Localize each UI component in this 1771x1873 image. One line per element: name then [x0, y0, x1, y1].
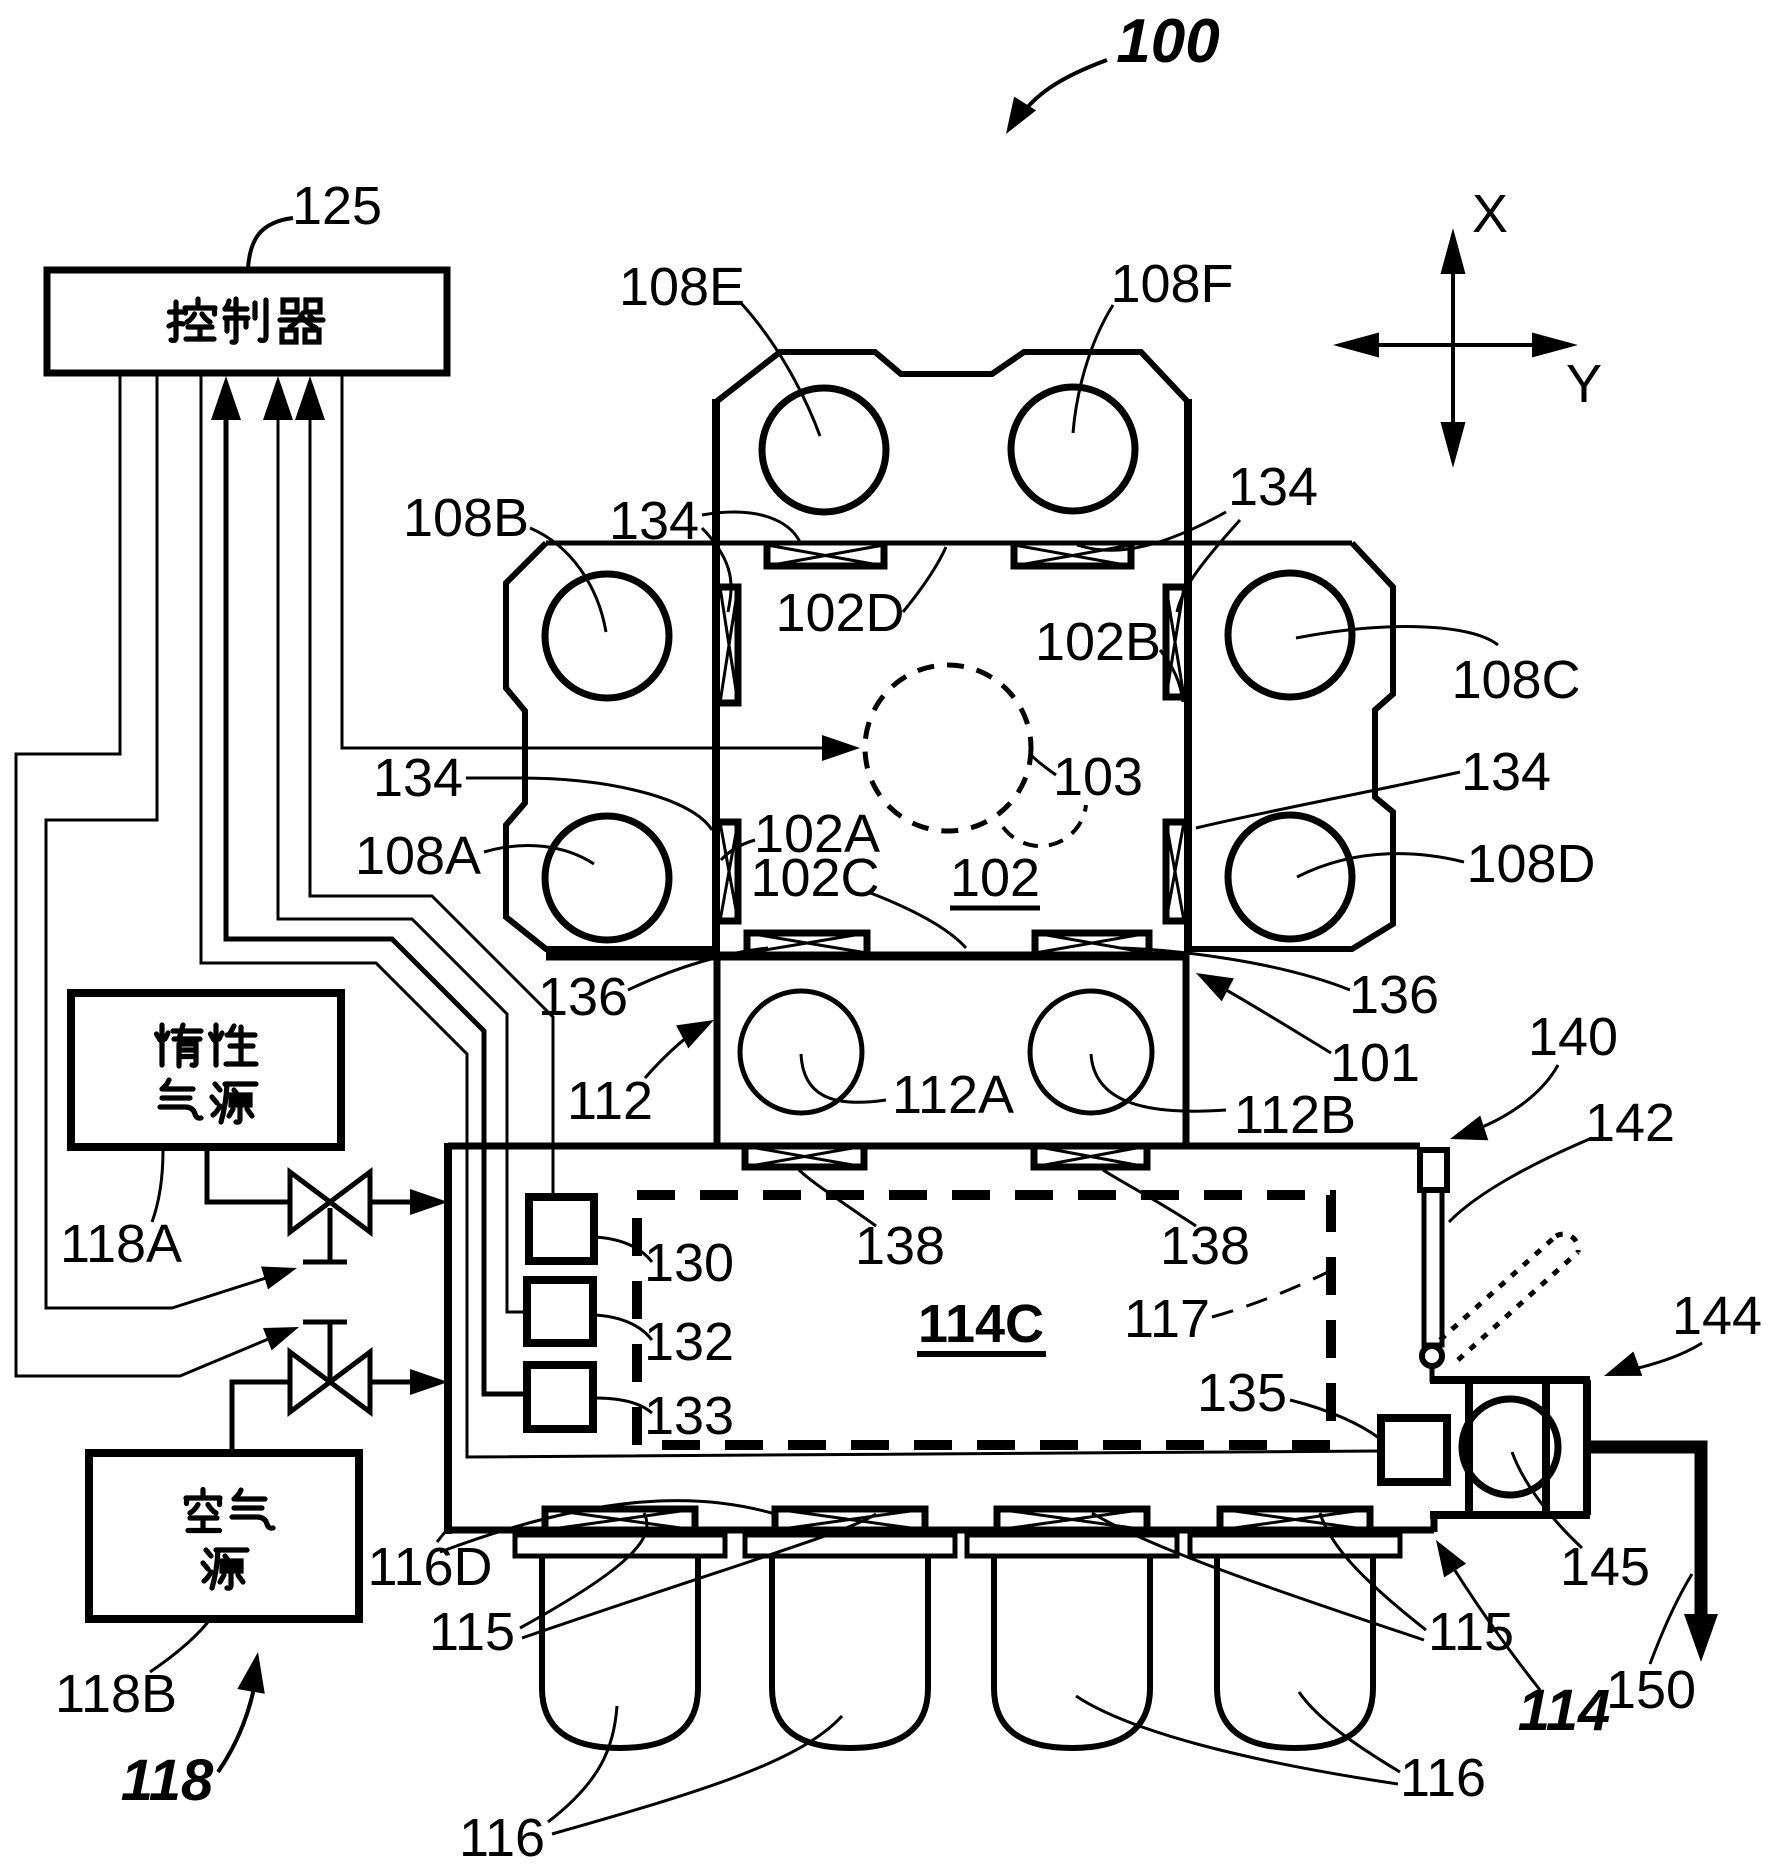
load port slit valve 115-2: [775, 1509, 925, 1530]
dashed enclosure 114C: [637, 1195, 1331, 1445]
leader 135: [1290, 1400, 1379, 1438]
loadlock left wall: [714, 955, 721, 1146]
leader 101: [1212, 982, 1331, 1053]
svg-text:136: 136: [538, 967, 628, 1027]
svg-text:134: 134: [609, 491, 699, 551]
svg-text:Y: Y: [1566, 354, 1602, 414]
inert gas source text: [157, 1025, 202, 1066]
wire L3 controller-to-FI-135: [201, 374, 1378, 1457]
gas panel box 130: [529, 1197, 594, 1261]
leader 140: [1466, 1065, 1558, 1133]
leader 145: [1512, 1452, 1582, 1548]
svg-text:132: 132: [644, 1312, 734, 1372]
robot 103 dashed circle: [865, 665, 1031, 831]
sweep 116D to port2: [440, 1501, 775, 1552]
leader 133: [595, 1398, 652, 1413]
axis horizontal Y: [1343, 343, 1568, 347]
controller box 125: [47, 270, 447, 373]
leader 136 left: [628, 948, 768, 990]
svg-text:118: 118: [121, 1748, 214, 1813]
svg-text:116: 116: [1400, 1748, 1486, 1808]
slit valve 136 bottom-left: [747, 933, 867, 953]
svg-text:130: 130: [644, 1233, 734, 1293]
slit valve 134 left-wall lower: [720, 822, 738, 921]
leader 118 arrow: [218, 1672, 257, 1772]
pipe air-source to valve2: [232, 1382, 290, 1453]
wire L4 controller-to-FI-133 (thick, arrow into controller): [226, 418, 525, 1394]
svg-text:112: 112: [567, 1071, 653, 1131]
axis vertical X: [1451, 238, 1455, 458]
svg-text:133: 133: [644, 1386, 734, 1446]
load port slit valve 115-3: [997, 1509, 1147, 1530]
svg-text:108D: 108D: [1466, 834, 1595, 894]
leader 138 right: [1103, 1170, 1196, 1226]
chamber circle 108F: [1011, 387, 1135, 511]
FI bottom wall: [444, 1527, 1434, 1534]
leader 116L a: [548, 1706, 617, 1822]
leader 108F: [1073, 305, 1113, 433]
valve 2 (air): [328, 1322, 333, 1382]
leader 136 right: [1122, 948, 1350, 990]
svg-text:X: X: [1472, 184, 1508, 244]
leader 112 arrow: [645, 1027, 700, 1078]
chamber circle 108A: [545, 816, 669, 940]
pump circle 145: [1462, 1399, 1558, 1495]
leader 102C: [868, 892, 966, 948]
slit valve 134 left-wall upper: [720, 587, 738, 703]
leader 102A: [721, 840, 755, 860]
leader 115L a: [520, 1513, 647, 1628]
load port slit valve 115-1: [545, 1509, 695, 1530]
loadlock right wall: [1183, 955, 1190, 1146]
leader 102B: [1160, 650, 1183, 702]
svg-text:144: 144: [1672, 1286, 1762, 1346]
wire L2 controller-to-valve1 actuator: [46, 374, 288, 1308]
svg-text:108C: 108C: [1451, 650, 1580, 710]
svg-text:142: 142: [1585, 1093, 1675, 1153]
mainframe top boundary line: [546, 541, 1352, 546]
svg-text:140: 140: [1528, 1007, 1618, 1067]
svg-text:101: 101: [1330, 1033, 1420, 1093]
slit valve 134 top-right: [1014, 545, 1131, 566]
controller text kong-zhi-qi: [169, 299, 215, 341]
chamber circle 108E: [762, 388, 886, 512]
slit valve 136 bottom-right: [1035, 933, 1149, 953]
wire L5 controller-to-FI-132: [278, 418, 525, 1312]
leader 116R a: [1299, 1692, 1400, 1772]
chamber circle 108B: [545, 574, 669, 698]
leader 134 mid-left: [466, 778, 712, 830]
leader 115R b: [1092, 1513, 1424, 1640]
leader 102D: [903, 547, 946, 612]
load port plate 115-1: [515, 1535, 725, 1556]
svg-text:100: 100: [1116, 7, 1219, 76]
svg-text:102C: 102C: [750, 848, 879, 908]
leader 134 top-left a: [702, 512, 800, 542]
leader 130: [596, 1237, 652, 1262]
svg-text:118B: 118B: [55, 1664, 177, 1724]
svg-text:134: 134: [1228, 457, 1318, 517]
leader 114: [1446, 1556, 1540, 1690]
leader 116L b: [552, 1716, 842, 1834]
leader 134 top-left b: [702, 528, 731, 612]
leader 134 top-right a: [1077, 512, 1226, 550]
robot blade dashed arc: [1003, 805, 1086, 846]
svg-text:136: 136: [1349, 965, 1439, 1025]
svg-text:103: 103: [1053, 747, 1143, 807]
transfer chamber left wall: [712, 399, 720, 955]
top chamber module outline: [716, 352, 1188, 402]
svg-text:125: 125: [292, 176, 382, 236]
load port plate 115-2: [745, 1535, 955, 1556]
loadlock wafer circle 112B: [1030, 991, 1152, 1113]
box 135: [1381, 1418, 1447, 1482]
leader 138 left: [799, 1170, 876, 1226]
svg-text:134: 134: [373, 748, 463, 808]
leader 116D: [437, 1530, 447, 1542]
transfer chamber right wall: [1184, 399, 1192, 955]
slit valve 134 top-left: [767, 545, 884, 566]
load port plate 115-4: [1190, 1535, 1400, 1556]
leader 108D: [1297, 854, 1464, 877]
svg-text:116D: 116D: [367, 1537, 492, 1597]
svg-text:134: 134: [1461, 742, 1551, 802]
FI top wall: [448, 1143, 1420, 1150]
carrier pod 116-3: [994, 1556, 1150, 1748]
leader 108B: [530, 528, 606, 632]
leader 125: [248, 218, 293, 268]
left chamber module outline: [506, 543, 716, 949]
exhaust line 150: [1590, 1447, 1701, 1618]
leader 134 top-right b: [1177, 520, 1240, 612]
slit valve 138 left: [745, 1146, 864, 1167]
aligner pivot stub: [1430, 1366, 1435, 1382]
slit valve 134 right-wall upper: [1166, 587, 1184, 697]
svg-text:135: 135: [1197, 1363, 1287, 1423]
leader 117 dashed: [1212, 1272, 1328, 1317]
gas panel box 133: [527, 1365, 593, 1429]
leader 116R b: [1076, 1696, 1398, 1784]
leader 112A: [801, 1054, 886, 1102]
aligner pivot: [1422, 1346, 1442, 1366]
leader 132: [596, 1315, 652, 1340]
carrier pod 116-2: [772, 1556, 928, 1748]
gas panel box 132: [527, 1280, 593, 1343]
leader 150: [1650, 1574, 1692, 1664]
leader 108A: [484, 846, 594, 864]
svg-text:115: 115: [429, 1602, 515, 1662]
svg-text:102: 102: [950, 848, 1040, 908]
pump box 144: [1430, 1380, 1590, 1515]
loadlock wafer circle 112A: [740, 991, 862, 1113]
aligner rod 142: [1424, 1190, 1442, 1345]
leader 142: [1449, 1138, 1592, 1222]
leader 144: [1620, 1343, 1702, 1372]
chamber circle 108C: [1228, 573, 1352, 697]
svg-text:114C: 114C: [918, 1294, 1044, 1354]
pipe valve2 to FI: [368, 1380, 424, 1385]
svg-text:108F: 108F: [1110, 254, 1233, 314]
svg-text:102D: 102D: [775, 583, 904, 643]
dotted arm: [1440, 1236, 1556, 1340]
svg-text:116: 116: [459, 1808, 545, 1868]
air source box 118B: [89, 1453, 359, 1619]
air source text: [186, 1490, 220, 1531]
svg-text:102B: 102B: [1035, 612, 1161, 672]
pipe inert-source to valve1: [207, 1147, 290, 1202]
chamber circle 108D: [1228, 815, 1352, 939]
leader arrow for 100: [1017, 60, 1107, 121]
svg-text:138: 138: [855, 1216, 945, 1276]
load port slit valve 115-4: [1220, 1509, 1370, 1530]
slit valve 138 right: [1034, 1146, 1147, 1167]
leader 134 mid-right: [1196, 772, 1460, 828]
svg-text:108E: 108E: [619, 257, 745, 317]
load port plate 115-3: [967, 1535, 1177, 1556]
leader 108C: [1296, 627, 1498, 645]
svg-text:118A: 118A: [60, 1214, 182, 1274]
svg-text:112A: 112A: [892, 1065, 1014, 1125]
valve 1 (inert gas): [328, 1208, 333, 1262]
leader 118A: [152, 1150, 163, 1222]
slit valve 134 right-wall lower: [1166, 822, 1184, 921]
carrier pod 116-4: [1217, 1556, 1373, 1748]
svg-text:117: 117: [1124, 1289, 1210, 1349]
FI left wall: [444, 1143, 452, 1534]
wire L6 controller-to-FI-130: [310, 418, 553, 1195]
leader 118B: [150, 1622, 208, 1672]
svg-text:108B: 108B: [403, 488, 529, 548]
wire L1 controller-to-valve2 actuator: [16, 374, 290, 1376]
wire L7 controller-to-robot-arrow: [342, 374, 844, 748]
aligner head 140: [1420, 1150, 1447, 1190]
inert gas source box 118A: [71, 993, 341, 1147]
carrier pod 116-1: [542, 1556, 698, 1748]
leader 103: [1031, 755, 1056, 775]
svg-text:115: 115: [1428, 1602, 1514, 1662]
svg-text:112B: 112B: [1234, 1085, 1356, 1145]
leader 112B: [1091, 1054, 1226, 1111]
leader 115L b: [522, 1514, 876, 1638]
mainframe bottom boundary 101: [546, 952, 1188, 961]
svg-text:108A: 108A: [355, 826, 481, 886]
svg-text:138: 138: [1160, 1216, 1250, 1276]
svg-text:145: 145: [1560, 1537, 1650, 1597]
svg-text:150: 150: [1606, 1660, 1696, 1720]
svg-text:114: 114: [1518, 1678, 1610, 1743]
leader 115R a: [1320, 1513, 1426, 1630]
right chamber module outline: [1188, 543, 1393, 949]
pipe valve1 to FI: [368, 1200, 424, 1205]
leader 108E: [740, 302, 820, 436]
